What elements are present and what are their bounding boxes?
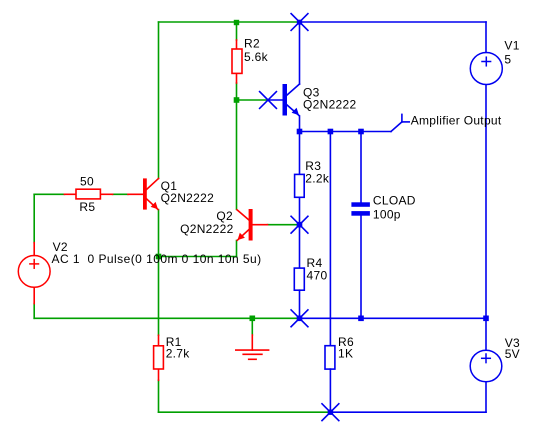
- svg-text:470: 470: [307, 269, 328, 283]
- svg-text:1K: 1K: [338, 346, 353, 360]
- svg-text:2.7k: 2.7k: [166, 346, 191, 360]
- svg-text:Q2N2222: Q2N2222: [180, 222, 233, 236]
- svg-text:Q2N2222: Q2N2222: [161, 191, 214, 205]
- svg-text:CLOAD: CLOAD: [373, 193, 416, 207]
- svg-text:Amplifier Output: Amplifier Output: [411, 113, 502, 127]
- svg-text:100p: 100p: [373, 207, 401, 221]
- svg-text:5.6k: 5.6k: [244, 50, 269, 64]
- svg-text:5: 5: [504, 52, 511, 66]
- svg-text:50: 50: [80, 175, 94, 189]
- svg-text:R2: R2: [244, 37, 260, 51]
- svg-text:5V: 5V: [505, 347, 520, 361]
- svg-text:Q2N2222: Q2N2222: [303, 98, 356, 112]
- svg-text:AC 1 0 Pulse(0 100m 0 10n 10n: AC 1 0 Pulse(0 100m 0 10n 10n 5u): [52, 252, 262, 266]
- svg-text:V1: V1: [504, 39, 519, 53]
- svg-text:2.2k: 2.2k: [305, 172, 330, 186]
- svg-text:R5: R5: [79, 200, 95, 214]
